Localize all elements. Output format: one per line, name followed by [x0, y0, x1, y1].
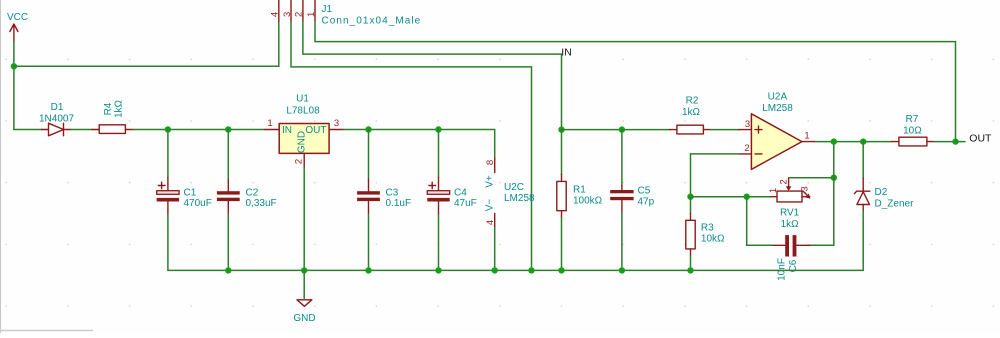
- resistor R3: [686, 197, 725, 271]
- node C5 top: [619, 126, 625, 132]
- node IN junction: [558, 126, 564, 132]
- svg-text:OUT: OUT: [305, 125, 326, 136]
- resistor R1: [557, 130, 603, 271]
- svg-text:LM258: LM258: [762, 103, 793, 114]
- resistor R4: [92, 99, 133, 133]
- power flag VCC: [7, 12, 28, 42]
- svg-text:OUT: OUT: [969, 133, 992, 145]
- svg-text:47uF: 47uF: [454, 198, 477, 209]
- svg-text:8: 8: [485, 160, 496, 165]
- node C1 top: [165, 126, 171, 132]
- svg-text:U2C: U2C: [504, 182, 524, 193]
- wire R3 node to RV1 pin1: [691, 196, 771, 198]
- svg-text:2: 2: [293, 159, 304, 164]
- node gnd U2C: [492, 267, 498, 273]
- wire OUT stub: [956, 141, 966, 143]
- wire RV1 wiper to feedback: [789, 177, 834, 179]
- node C4 top: [435, 126, 441, 132]
- svg-text:GND: GND: [297, 131, 308, 153]
- node gnd J1: [528, 267, 534, 273]
- svg-text:10Ω: 10Ω: [903, 126, 922, 137]
- svg-text:RV1: RV1: [780, 208, 800, 219]
- regulator U1: [265, 94, 343, 168]
- svg-text:C3: C3: [386, 188, 399, 199]
- resistor R7: [892, 114, 935, 146]
- node output-zener: [860, 138, 866, 144]
- ground symbol: [293, 270, 315, 324]
- svg-text:1: 1: [804, 131, 809, 142]
- svg-text:3: 3: [800, 186, 811, 191]
- svg-text:2: 2: [294, 12, 305, 17]
- svg-text:V+: V+: [484, 175, 495, 188]
- capacitor C5: [610, 130, 654, 271]
- svg-text:VCC: VCC: [7, 12, 28, 23]
- wire J1 pin2 to IN node: [303, 22, 562, 130]
- svg-text:3: 3: [745, 119, 750, 130]
- svg-text:V−: V−: [484, 199, 495, 212]
- node OUT: [952, 138, 958, 144]
- svg-text:0,33uF: 0,33uF: [246, 198, 277, 209]
- capacitor C4: [427, 130, 476, 271]
- svg-text:Conn_01x04_Male: Conn_01x04_Male: [322, 16, 422, 27]
- node VCC branch: [11, 63, 17, 69]
- wire ground rail: [168, 269, 863, 271]
- svg-text:U1: U1: [296, 94, 309, 105]
- svg-text:LM258: LM258: [504, 193, 535, 204]
- svg-text:R3: R3: [701, 223, 714, 234]
- node gnd C2: [225, 267, 231, 273]
- svg-text:2: 2: [779, 179, 790, 184]
- capacitor C6: [772, 235, 810, 281]
- op-amp U2A: [739, 92, 817, 170]
- wire VCC to J1 pin4: [14, 22, 279, 67]
- resistor R2: [670, 96, 711, 134]
- svg-text:R4: R4: [103, 102, 114, 115]
- svg-text:4: 4: [270, 12, 281, 17]
- wire D1 to R4: [71, 129, 93, 131]
- node C2 top: [225, 126, 231, 132]
- svg-text:L78L08: L78L08: [286, 106, 320, 117]
- EDGE: [0, 0, 93, 333]
- svg-text:R7: R7: [906, 114, 919, 125]
- svg-text:470uF: 470uF: [184, 198, 212, 209]
- wire U1 pin2 down: [303, 168, 305, 271]
- svg-text:GND: GND: [293, 313, 315, 324]
- wire op-amp pin2 to R3 node: [691, 154, 739, 197]
- svg-text:100kΩ: 100kΩ: [573, 196, 603, 207]
- wire VCC vertical: [13, 42, 15, 130]
- svg-text:1kΩ: 1kΩ: [114, 99, 125, 118]
- node gnd C3: [365, 267, 371, 273]
- wire op-amp output row: [816, 141, 892, 143]
- node wiper junction: [831, 175, 837, 181]
- svg-text:10nF: 10nF: [776, 258, 787, 281]
- wire main rail left: [14, 129, 42, 131]
- wire J1 pin3 to ground rail: [291, 22, 532, 271]
- diode D1: [39, 102, 74, 136]
- wire R2 to op-amp: [711, 129, 739, 131]
- zener D2: [854, 142, 914, 271]
- svg-text:3: 3: [334, 118, 339, 129]
- svg-text:IN: IN: [282, 125, 292, 136]
- svg-text:C5: C5: [638, 186, 651, 197]
- svg-text:C4: C4: [454, 188, 467, 199]
- node C3 top: [365, 126, 371, 132]
- svg-text:3: 3: [282, 12, 293, 17]
- svg-text:2: 2: [744, 143, 749, 154]
- capacitor C2: [217, 130, 277, 271]
- svg-text:U2A: U2A: [768, 92, 788, 103]
- potentiometer RV1: [768, 179, 811, 231]
- wire IN row: [562, 129, 670, 131]
- svg-text:1N4007: 1N4007: [39, 114, 74, 125]
- svg-text:47p: 47p: [638, 197, 655, 208]
- svg-text:R1: R1: [573, 185, 586, 196]
- op-amp power unit U2C: [484, 130, 535, 271]
- wire J1 pin1 to OUT node: [315, 22, 956, 142]
- node gnd U1: [301, 267, 307, 273]
- node gnd C4: [435, 267, 441, 273]
- svg-text:D2: D2: [875, 187, 888, 198]
- node gnd C5: [619, 267, 625, 273]
- svg-text:C2: C2: [246, 188, 259, 199]
- svg-text:D_Zener: D_Zener: [875, 199, 915, 210]
- capacitor C3: [357, 130, 411, 271]
- wire C6 to R3 node: [747, 197, 772, 246]
- wire U1 out rail: [343, 129, 494, 131]
- svg-text:1: 1: [768, 188, 779, 193]
- svg-text:J1: J1: [322, 4, 333, 15]
- svg-text:IN: IN: [561, 47, 572, 59]
- svg-text:1: 1: [306, 12, 317, 17]
- svg-text:1kΩ: 1kΩ: [682, 107, 701, 118]
- svg-text:C1: C1: [184, 188, 197, 199]
- capacitor C1: [157, 130, 212, 271]
- node gnd R3: [687, 267, 693, 273]
- connector J1: [270, 0, 422, 27]
- wire R7 to OUT: [934, 141, 955, 143]
- node R3 top: [687, 194, 693, 200]
- wire R4 to U1: [133, 129, 265, 131]
- svg-text:R2: R2: [686, 96, 699, 107]
- svg-text:1kΩ: 1kΩ: [781, 219, 800, 230]
- wire output feedback vertical: [810, 142, 834, 246]
- svg-text:D1: D1: [51, 102, 64, 113]
- node gnd R1: [558, 267, 564, 273]
- node output-feedback: [831, 138, 837, 144]
- svg-text:0.1uF: 0.1uF: [386, 198, 412, 209]
- node C6 left branch: [744, 194, 750, 200]
- svg-text:10kΩ: 10kΩ: [701, 234, 725, 245]
- svg-text:1: 1: [267, 118, 272, 129]
